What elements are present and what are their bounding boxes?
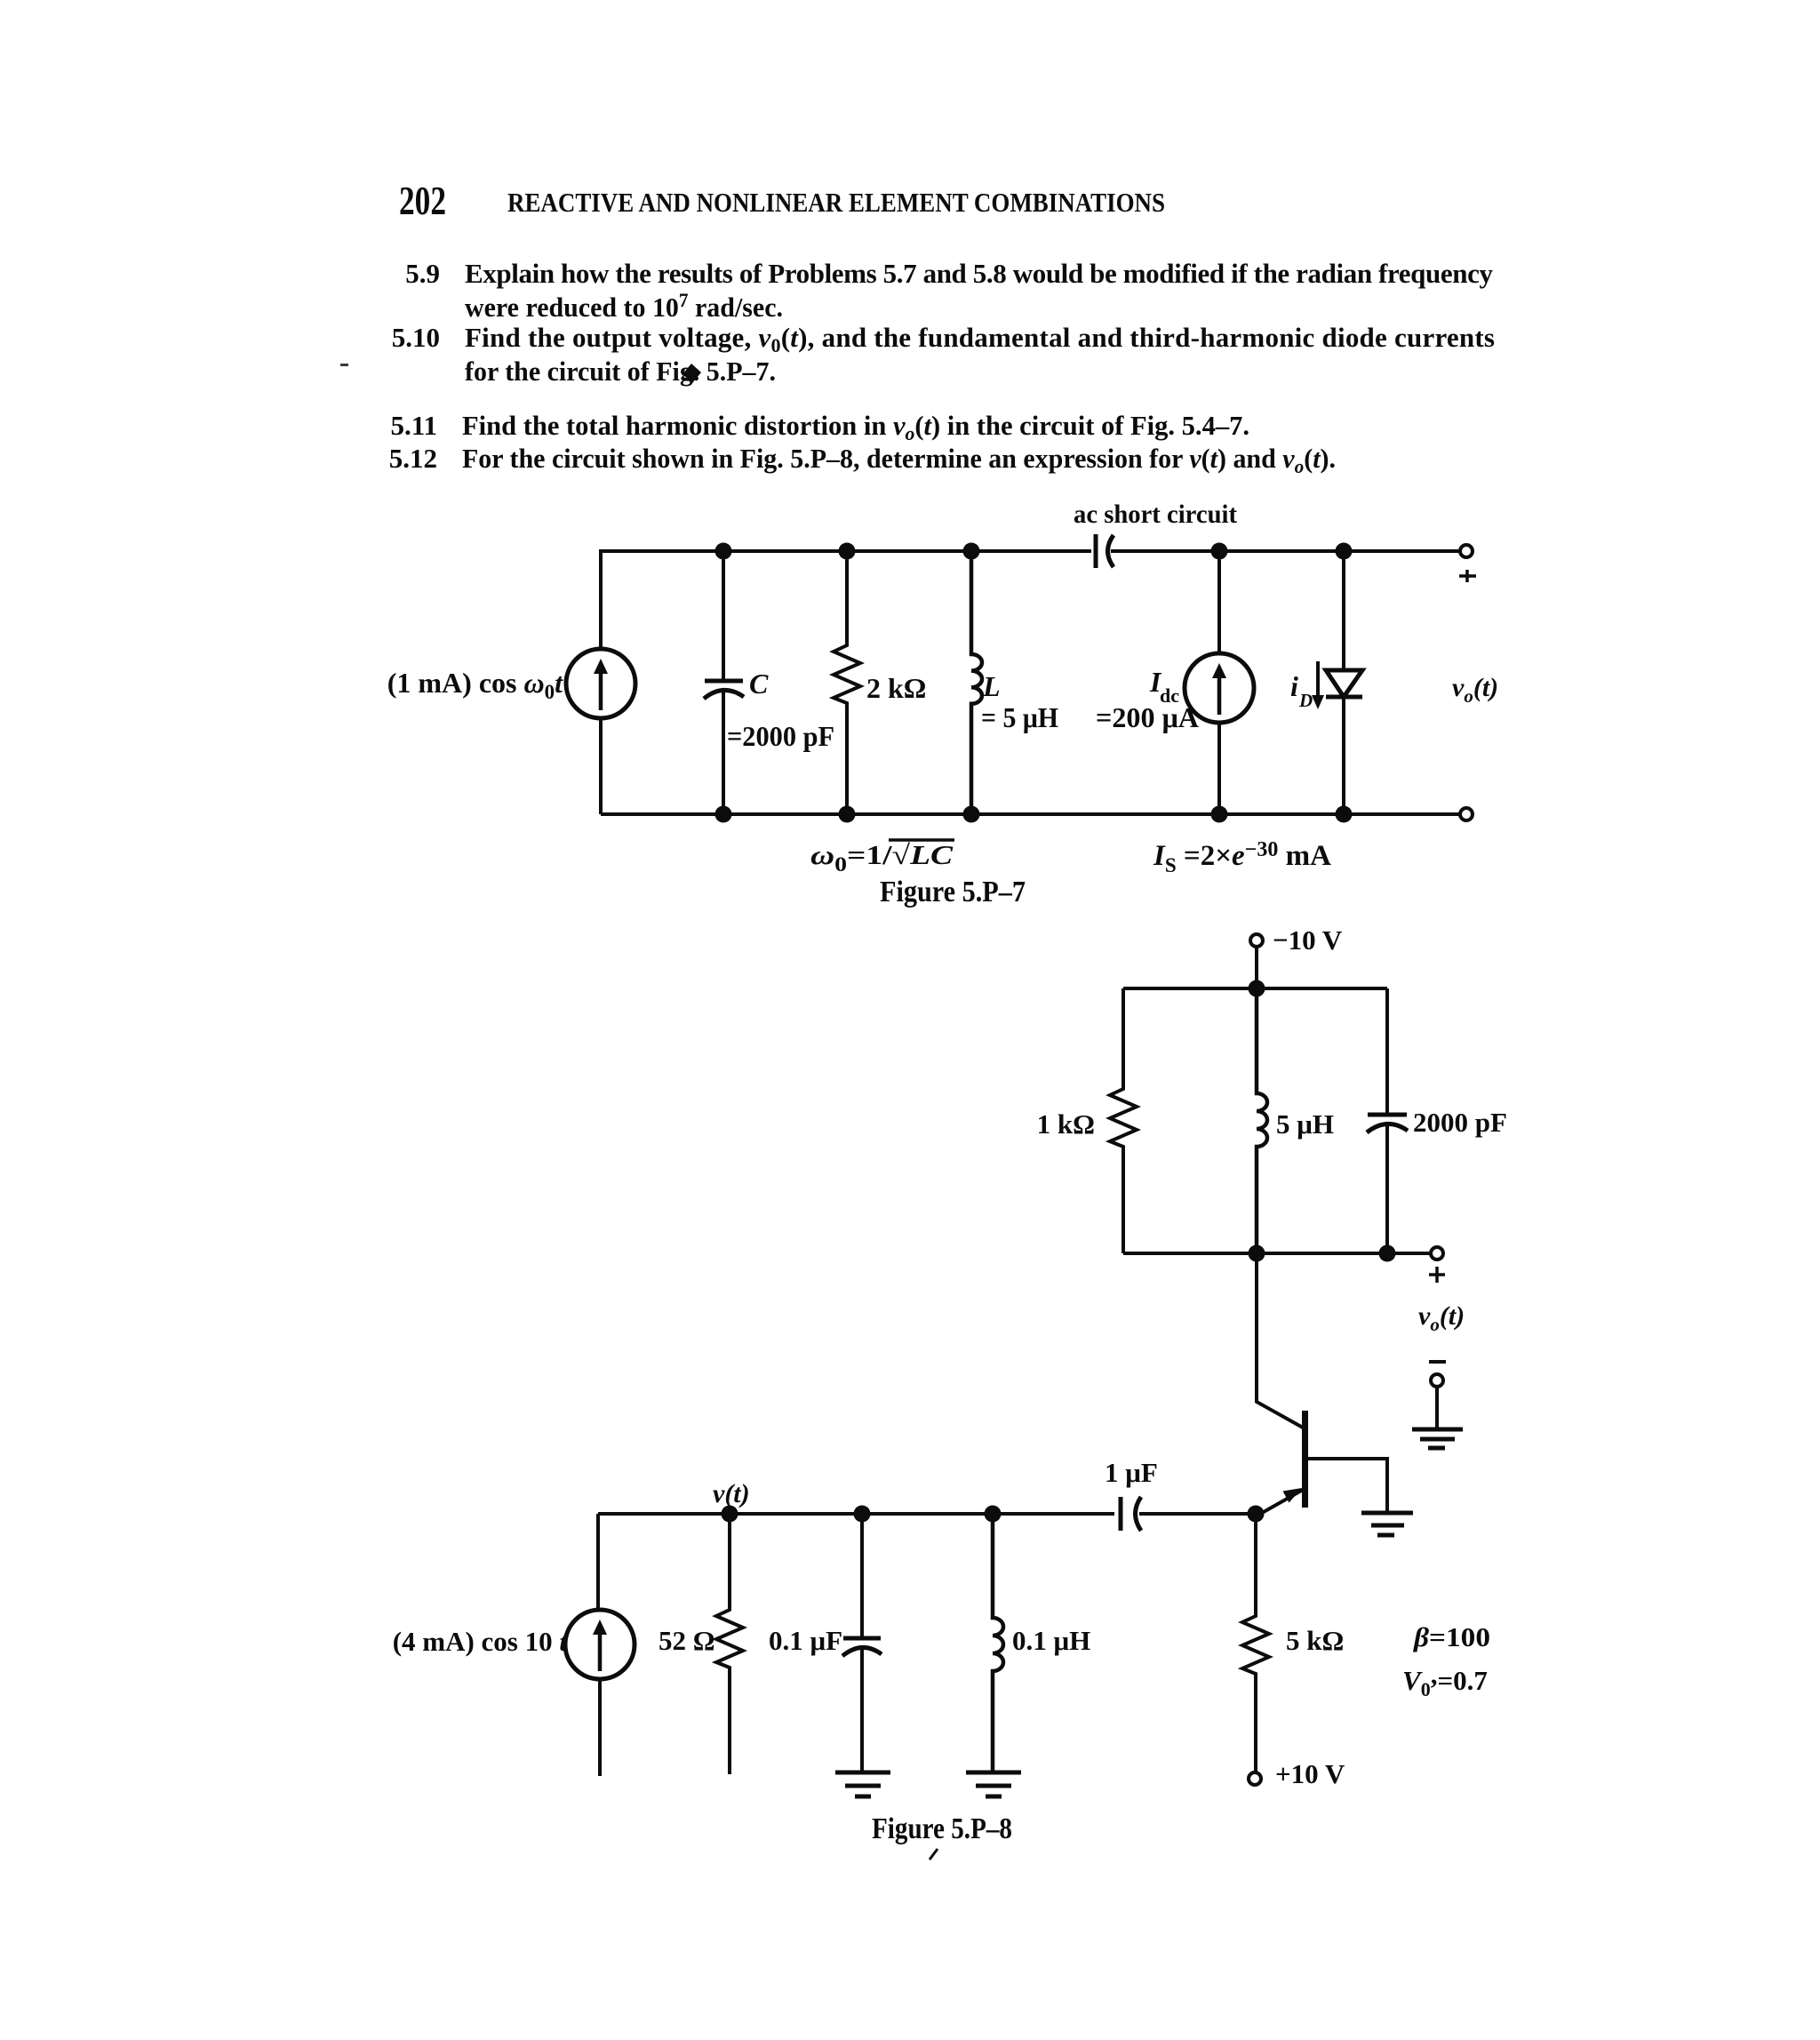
svg-text:1 μF: 1 μF: [1105, 1457, 1158, 1488]
svg-text:D: D: [1298, 690, 1313, 711]
transistor Q1 emitter with arrow: [1256, 1490, 1303, 1516]
svg-text:For the circuit shown in Fig.: For the circuit shown in Fig. 5.P–8, det…: [462, 443, 1336, 477]
node: C bottom: [715, 806, 732, 823]
svg-text:202: 202: [399, 179, 446, 223]
-10V supply terminal: [1250, 934, 1263, 947]
inductor L branch: [971, 551, 982, 814]
resistor 5k branch: [1242, 1514, 1269, 1773]
resistor R 2k branch: [834, 551, 860, 814]
svg-text:V0,=0.7: V0,=0.7: [1402, 1659, 1488, 1700]
svg-text:5.9: 5.9: [405, 258, 440, 289]
svg-text:5.12: 5.12: [389, 443, 437, 474]
inductor 0.1uH branch: [993, 1514, 1003, 1772]
stray slash mark: [930, 1849, 938, 1860]
wire: main input rail: [598, 1512, 1114, 1516]
node: Idc top: [1211, 543, 1228, 560]
wire: left branch above source and top rail to ac cap: [601, 551, 1091, 650]
ac short circuit capacitor in top rail: [1094, 534, 1098, 568]
output terminal vo-: [1431, 1374, 1443, 1387]
ink blob artifact above "Fig": [682, 364, 701, 383]
svg-text:=200 μA: =200 μA: [1096, 701, 1199, 733]
svg-text:vo(t): vo(t): [1418, 1301, 1465, 1335]
svg-text:ac short circuit: ac short circuit: [1074, 500, 1237, 529]
output terminal top: [1460, 545, 1473, 557]
node 0.1uF: [854, 1506, 871, 1523]
svg-text:2 kΩ: 2 kΩ: [866, 672, 926, 704]
svg-text:C: C: [749, 668, 769, 700]
svg-text:vo(t): vo(t): [1452, 673, 1498, 707]
wire: source branch left vertical: [596, 1514, 600, 1610]
svg-text:5.10: 5.10: [392, 322, 440, 353]
labels for figure 5.P-7: [387, 500, 1498, 908]
current source (4 mA) cos 10t: [565, 1610, 635, 1679]
svg-text:for the circuit of Fig. 5.P–7.: for the circuit of Fig. 5.P–7.: [465, 356, 776, 387]
page header: [399, 179, 1165, 223]
wire: bottom rail: [601, 812, 1460, 816]
node: R top: [839, 543, 856, 560]
node: R bottom: [839, 806, 856, 823]
wire: collector lead: [1257, 1253, 1303, 1428]
svg-text:β=100: β=100: [1413, 1621, 1490, 1652]
plus polarity mark: [1429, 1267, 1445, 1283]
node tank bottom: [1249, 1245, 1265, 1262]
capacitor C branch wire bottom: [722, 692, 725, 814]
node: diode bottom: [1336, 806, 1353, 823]
svg-text:2000 pF: 2000 pF: [1413, 1107, 1507, 1138]
svg-text:=2000 pF: =2000 pF: [727, 720, 834, 752]
svg-text:= 5 μH: = 5 μH: [981, 701, 1058, 733]
svg-text:5.11: 5.11: [390, 410, 437, 441]
svg-text:5 μH: 5 μH: [1276, 1108, 1334, 1140]
svg-text:v(t): v(t): [713, 1479, 750, 1508]
svg-text:−10 V: −10 V: [1273, 924, 1343, 956]
svg-text:L: L: [982, 670, 1001, 702]
capacitor 0.1uF branch: [860, 1514, 864, 1636]
capacitor 2000pF branch: [1385, 988, 1389, 1113]
svg-text:Explain how the results of Pro: Explain how the results of Problems 5.7 …: [465, 258, 1494, 289]
output terminal vo+: [1431, 1247, 1443, 1260]
svg-text:ω0=1/√LC: ω0=1/√LC: [810, 839, 953, 876]
node 0.1uH: [985, 1506, 1002, 1523]
node: C top: [715, 543, 732, 560]
inductor 5uH branch: [1257, 988, 1267, 1253]
ground at base: [1361, 1511, 1413, 1516]
wire: top rail right of ac cap: [1111, 549, 1460, 553]
svg-text:52 Ω: 52 Ω: [659, 1625, 715, 1656]
capacitor C plates: [705, 679, 743, 684]
svg-text:Find the total harmonic distor: Find the total harmonic distortion in vo…: [462, 410, 1249, 444]
output terminal bottom: [1460, 808, 1473, 820]
svg-text:5 kΩ: 5 kΩ: [1286, 1625, 1344, 1656]
wire: base to ground: [1307, 1459, 1387, 1513]
diode current iD arrow: [1316, 661, 1320, 699]
node: L top: [963, 543, 980, 560]
current source I=(1 mA) cos w0t: [566, 649, 635, 718]
ground at 0.1uF: [835, 1771, 890, 1775]
ground at 0.1uH: [966, 1771, 1021, 1775]
svg-text:(4 mA) cos 10 t: (4 mA) cos 10 t: [393, 1626, 569, 1657]
svg-text:0.1 μH: 0.1 μH: [1012, 1625, 1090, 1656]
svg-text:+10 V: +10 V: [1275, 1758, 1345, 1789]
wire: left branch below source: [599, 718, 603, 814]
stray margin mark: [340, 364, 348, 366]
svg-text:0.1 μF: 0.1 μF: [769, 1625, 842, 1656]
ground at vo-: [1412, 1428, 1463, 1432]
node v(t): [722, 1506, 738, 1523]
wire: vo- to ground: [1435, 1387, 1439, 1429]
svg-text:Figure 5.P–8: Figure 5.P–8: [872, 1812, 1012, 1845]
node tank bottom right: [1379, 1245, 1396, 1262]
problem text block: [340, 258, 1495, 477]
node: Idc bottom: [1211, 806, 1228, 823]
current source Idc branch: [1217, 551, 1221, 653]
svg-text:REACTIVE AND NONLINEAR ELEMENT: REACTIVE AND NONLINEAR ELEMENT COMBINATI…: [507, 187, 1165, 218]
svg-text:i: i: [1290, 670, 1298, 702]
transistor Q1 base bar: [1302, 1411, 1308, 1508]
svg-text:IS =2×e−30 mA: IS =2×e−30 mA: [1153, 838, 1331, 876]
svg-text:were reduced to 107 rad/sec.: were reduced to 107 rad/sec.: [465, 289, 783, 323]
svg-text:1 kΩ: 1 kΩ: [1037, 1108, 1095, 1140]
labels for figure 5.P-8: [393, 924, 1507, 1860]
wire: tank top rail: [1123, 987, 1387, 990]
wire: tank bottom rail: [1123, 1252, 1431, 1255]
node: L bottom: [963, 806, 980, 823]
capacitor C branch wire top: [722, 551, 725, 679]
capacitor 1uF in input rail: [1119, 1497, 1123, 1531]
diode D branch: [1342, 551, 1345, 670]
plus polarity mark: [1459, 570, 1476, 582]
+10V supply terminal: [1249, 1772, 1261, 1785]
svg-text:(1 mA) cos ω0t: (1 mA) cos ω0t: [387, 667, 563, 703]
svg-text:Find the output voltage, v0(t): Find the output voltage, v0(t), and the …: [465, 322, 1495, 356]
node emitter: [1248, 1506, 1265, 1523]
svg-text:Figure 5.P–7: Figure 5.P–7: [880, 876, 1026, 908]
wire: -10V to tank top: [1255, 947, 1258, 988]
node: diode top: [1336, 543, 1353, 560]
resistor 1k branch: [1110, 988, 1137, 1253]
node tank top: [1249, 980, 1265, 997]
resistor 52 ohm branch: [716, 1514, 743, 1774]
minus polarity mark: [1429, 1360, 1446, 1364]
